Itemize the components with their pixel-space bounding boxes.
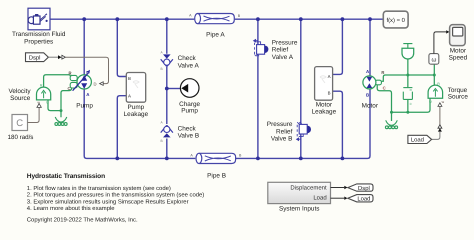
- port S arrow on torque source: [438, 103, 442, 107]
- svg-text:Valve B: Valve B: [271, 136, 293, 143]
- block Check Valve A: [161, 54, 173, 66]
- svg-text:A: A: [86, 92, 90, 97]
- svg-text:A: A: [328, 74, 331, 79]
- svg-text:Pump: Pump: [76, 102, 93, 109]
- block PS-Simulink omega: [429, 54, 439, 65]
- block Transmission Fluid Properties: [28, 8, 50, 30]
- svg-text:R: R: [381, 70, 384, 75]
- block Pump Leakage: [126, 73, 145, 103]
- svg-text:Pump: Pump: [181, 108, 198, 115]
- wire omega to torque source: [433, 64, 435, 85]
- wire sensor to shaft: [407, 59, 409, 75]
- block Pump: [70, 70, 91, 91]
- svg-text:1. Plot flow rates in the tran: 1. Plot flow rates in the transmission s…: [27, 185, 171, 192]
- wire relief valve B column: [300, 19, 302, 158]
- tag Dspl (goto): [348, 184, 373, 192]
- wire pump leakage B: [117, 19, 126, 76]
- wire motor C down: [377, 85, 391, 121]
- block Check Valve B: [161, 125, 173, 137]
- junction green left: [60, 109, 63, 112]
- wire motor leakage B: [333, 91, 343, 158]
- svg-text:Pressure: Pressure: [267, 121, 293, 128]
- wire motor R to shaft line: [381, 75, 434, 81]
- wire pump B vertical: [83, 19, 85, 75]
- svg-text:Valve A: Valve A: [272, 54, 294, 61]
- block System Inputs subsystem: [268, 182, 331, 203]
- wire source U down: [48, 100, 61, 111]
- block Pressure Relief Valve A: [254, 40, 269, 57]
- svg-text:Source: Source: [10, 95, 31, 102]
- svg-text:Pipe B: Pipe B: [207, 172, 226, 179]
- svg-text:D: D: [93, 82, 96, 87]
- svg-text:R: R: [410, 88, 413, 92]
- svg-text:f(x) = 0: f(x) = 0: [386, 17, 405, 24]
- svg-text:Displacement: Displacement: [290, 185, 327, 192]
- svg-text:Load: Load: [357, 196, 370, 203]
- wire motor A vertical: [369, 19, 371, 77]
- svg-text:U: U: [429, 100, 432, 104]
- svg-text:A: A: [161, 121, 164, 125]
- svg-text:Valve A: Valve A: [178, 63, 200, 70]
- wire load out: [331, 197, 345, 199]
- wire Dspl signal: [48, 56, 58, 58]
- svg-text:Motor: Motor: [362, 102, 379, 109]
- wire pump leakage A: [117, 96, 126, 159]
- tag Load (goto): [348, 195, 373, 203]
- svg-text:C: C: [16, 118, 23, 129]
- svg-text:R: R: [68, 71, 71, 76]
- wire inertia column: [407, 75, 409, 112]
- svg-text:Relief: Relief: [276, 128, 293, 135]
- svg-text:Copyright 2019-2022 The MathWo: Copyright 2019-2022 The MathWorks, Inc.: [27, 217, 138, 224]
- wire top hydraulic line: [50, 18, 383, 20]
- svg-text:ω: ω: [431, 56, 436, 63]
- svg-text:Dspl: Dspl: [358, 185, 370, 192]
- wire C to source: [28, 108, 40, 123]
- svg-text:4. Learn more about this examp: 4. Learn more about this example: [27, 205, 115, 212]
- svg-text:Properties: Properties: [24, 38, 53, 45]
- block Inertia: [403, 88, 412, 100]
- svg-text:B: B: [86, 70, 89, 75]
- svg-text:Pipe A: Pipe A: [206, 32, 225, 39]
- block Charge Pump: [180, 79, 199, 98]
- junction dots hydraulic: [82, 17, 372, 160]
- svg-text:A: A: [190, 153, 193, 157]
- svg-text:3. Explore simulation results: 3. Explore simulation results using Sims…: [27, 199, 189, 206]
- svg-text:R: R: [437, 82, 440, 86]
- svg-text:Velocity: Velocity: [8, 88, 31, 95]
- svg-text:Source: Source: [448, 94, 469, 101]
- wire motor leakage A: [333, 19, 343, 74]
- svg-text:C: C: [383, 86, 386, 91]
- block Torque Source: [428, 85, 443, 98]
- block Pressure Relief Valve B: [297, 122, 311, 140]
- svg-text:Pressure: Pressure: [272, 39, 298, 46]
- wire torque source signal: [439, 106, 441, 125]
- block Motor Speed scope: [450, 25, 466, 46]
- block solver f(x)=0: [383, 11, 408, 28]
- svg-text:Speed: Speed: [449, 54, 468, 61]
- wire pump C down-left: [61, 88, 72, 117]
- svg-text:C: C: [410, 102, 413, 106]
- svg-text:Check: Check: [178, 55, 197, 62]
- block Pipe A: [195, 14, 235, 24]
- svg-text:Leakage: Leakage: [124, 111, 149, 118]
- svg-text:Relief: Relief: [272, 47, 289, 54]
- port S arrow on source: [37, 104, 41, 108]
- wire charge pump stub: [167, 88, 181, 90]
- svg-text:B: B: [239, 154, 242, 158]
- wire bottom hydraulic line: [84, 89, 370, 158]
- svg-text:Load: Load: [313, 195, 326, 202]
- svg-text:2. Plot torques and pressures: 2. Plot torques and pressures in the tra…: [27, 192, 204, 199]
- wire middle column: [166, 19, 168, 158]
- block Velocity Source: [37, 87, 51, 100]
- tag Load (from): [408, 135, 432, 143]
- wire omega to scope: [434, 32, 446, 54]
- block Pipe B: [196, 153, 236, 163]
- svg-text:A: A: [161, 50, 164, 54]
- ground rotational right: [385, 120, 397, 128]
- wire source R to pump R: [44, 75, 71, 87]
- block Motor Leakage: [315, 67, 333, 101]
- svg-text:C: C: [67, 86, 70, 91]
- tag Dspl (from): [26, 53, 49, 62]
- svg-text:Load: Load: [411, 137, 424, 144]
- svg-text:Leakage: Leakage: [312, 108, 337, 115]
- svg-text:B: B: [161, 139, 163, 143]
- wire displacement out: [331, 187, 345, 189]
- svg-text:Hydrostatic Transmission: Hydrostatic Transmission: [27, 173, 105, 180]
- block Rotational Motion Sensor: [402, 44, 414, 59]
- svg-text:System Inputs: System Inputs: [279, 206, 320, 213]
- block Motor: [363, 76, 382, 89]
- svg-text:A: A: [128, 94, 131, 99]
- block constant C: [12, 115, 28, 131]
- ground rotational left: [55, 117, 67, 125]
- svg-text:B: B: [238, 14, 241, 18]
- svg-text:Dspl: Dspl: [29, 54, 41, 61]
- svg-text:B: B: [366, 92, 369, 97]
- svg-text:Check: Check: [178, 125, 197, 132]
- svg-text:Valve B: Valve B: [178, 133, 200, 140]
- svg-text:180 rad/s: 180 rad/s: [8, 134, 34, 141]
- svg-text:B: B: [328, 91, 331, 96]
- wire relief valve A column: [257, 19, 259, 158]
- wire green bottom rail: [392, 98, 431, 112]
- svg-text:B: B: [128, 76, 131, 81]
- svg-text:B: B: [161, 67, 163, 71]
- svg-text:A: A: [189, 14, 192, 18]
- svg-text:Transmission Fluid: Transmission Fluid: [12, 31, 66, 38]
- svg-text:w: w: [442, 100, 445, 104]
- junction dots green: [406, 74, 409, 77]
- port D arrow on pump: [100, 82, 104, 86]
